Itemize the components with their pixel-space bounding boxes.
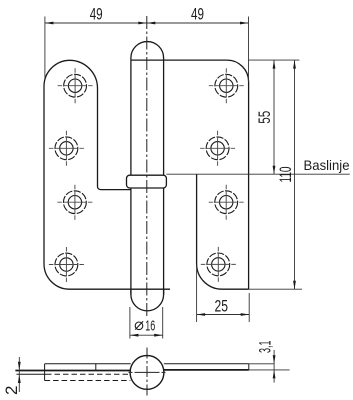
hole R3 inner circle xyxy=(220,196,233,209)
hole L1 crosshair xyxy=(58,68,93,103)
hole L1 outer circle xyxy=(64,74,87,97)
hole L3 inner circle xyxy=(68,196,81,209)
hole R4 crosshair xyxy=(201,247,236,282)
dim 49 right extension line xyxy=(248,17,250,83)
svg-text:25: 25 xyxy=(215,297,229,316)
hole R4 outer circle xyxy=(207,253,230,276)
hole R2 inner circle xyxy=(211,142,224,155)
dim 49 dimension line xyxy=(45,22,249,24)
hole L4 crosshair xyxy=(49,247,84,282)
baseline reference line xyxy=(166,173,349,175)
dim phi16 left extension line xyxy=(129,307,131,339)
dim 3 arrow bottom xyxy=(273,370,276,379)
frame part top edge left (side view) xyxy=(45,363,131,365)
dim 55 arrow up xyxy=(273,60,276,69)
dim 55 dimension line xyxy=(273,60,275,174)
hole L1 inner circle xyxy=(68,79,81,92)
door leaf bottom edge solid tip (side view) xyxy=(17,373,47,375)
dim 25 arrow right xyxy=(241,313,250,316)
bottom edge across barrel xyxy=(131,288,170,290)
knuckle collar xyxy=(127,175,167,188)
dim phi16 arrow right xyxy=(154,334,163,337)
dim 49 arrows middle xyxy=(138,22,147,25)
bottom extension line to 110 dim xyxy=(249,288,302,290)
door leaf bottom edge hidden dashed (side view) xyxy=(46,373,130,375)
hole R4 inner circle xyxy=(212,258,225,271)
frame leaf bottom edge right (side view) xyxy=(164,369,249,371)
svg-text:49: 49 xyxy=(90,5,103,24)
dim 2 dimension line xyxy=(18,357,20,392)
hole L4 inner circle xyxy=(60,258,73,271)
hole L3 outer circle xyxy=(64,191,87,214)
dim 3 top extension line xyxy=(249,363,274,365)
dim phi16 dimension line xyxy=(130,334,163,336)
dim 3 arrow top xyxy=(273,355,276,364)
pin barrel right edge xyxy=(163,60,165,294)
dim 110 dimension line xyxy=(294,60,296,289)
side view barrel circle xyxy=(130,356,164,390)
top extension line to 55/110 dims xyxy=(249,59,300,61)
dim phi16 right extension line xyxy=(162,307,164,339)
frame leaf end tick (side view) xyxy=(248,364,250,370)
hole R1 outer circle xyxy=(215,74,238,97)
hole L2 outer circle xyxy=(55,137,78,160)
frame leaf top edge right (side view) xyxy=(164,363,249,365)
dim phi16 arrow left xyxy=(130,334,139,337)
hole R3 crosshair xyxy=(209,185,244,220)
dim 49 left extension line xyxy=(44,17,46,79)
frame part bottom hidden dashed (side view) xyxy=(45,380,131,382)
hole R2 outer circle xyxy=(206,137,229,160)
left leaf plate outline xyxy=(44,60,131,289)
hole R3 outer circle xyxy=(215,191,238,214)
dim 25 arrow left xyxy=(197,313,206,316)
pin barrel top dome xyxy=(131,42,164,61)
side view circle horizontal centerline xyxy=(129,371,166,373)
svg-text:110: 110 xyxy=(276,167,295,183)
hole R2 crosshair xyxy=(200,131,235,166)
dim 3 bottom extension line xyxy=(249,369,290,371)
hole L4 outer circle xyxy=(55,253,78,276)
hole R1 crosshair xyxy=(209,68,244,103)
dim 110 arrow down xyxy=(293,281,296,290)
dim 49 arrow right xyxy=(240,22,249,25)
hole L2 crosshair xyxy=(49,131,84,166)
hole L3 crosshair xyxy=(57,185,92,220)
pin barrel left edge xyxy=(130,60,132,294)
dim 2 arrow top xyxy=(18,362,21,371)
svg-text:16: 16 xyxy=(145,318,155,335)
dim 2 arrow bottom xyxy=(18,375,21,384)
dim 25 dimension line xyxy=(197,314,250,316)
pin centerline xyxy=(146,16,148,317)
side view circle vertical centerline xyxy=(146,348,148,398)
dim 3 dimension line xyxy=(273,350,275,383)
svg-text:Baslinje: Baslinje xyxy=(304,157,350,173)
frame part step tick (side view) xyxy=(95,364,97,371)
pin barrel bottom dome xyxy=(131,289,164,311)
hole R1 inner circle xyxy=(220,79,233,92)
svg-text:2: 2 xyxy=(2,386,21,395)
frame part left end cap (side view) xyxy=(44,364,46,381)
dim 55 arrow down xyxy=(273,166,276,175)
dim 25 right extension line xyxy=(248,293,250,322)
right leaf plate outline xyxy=(131,60,249,289)
dim 49 arrow left xyxy=(45,22,54,25)
dim 110 arrow up xyxy=(293,60,296,69)
svg-text:3,1: 3,1 xyxy=(256,340,275,353)
door leaf top edge (side view) xyxy=(15,370,130,372)
svg-text:55: 55 xyxy=(255,111,274,124)
dim 25 left extension line xyxy=(196,264,198,322)
svg-text:49: 49 xyxy=(191,5,204,24)
phi symbol of phi16 xyxy=(135,321,143,329)
hole L2 inner circle xyxy=(60,142,73,155)
